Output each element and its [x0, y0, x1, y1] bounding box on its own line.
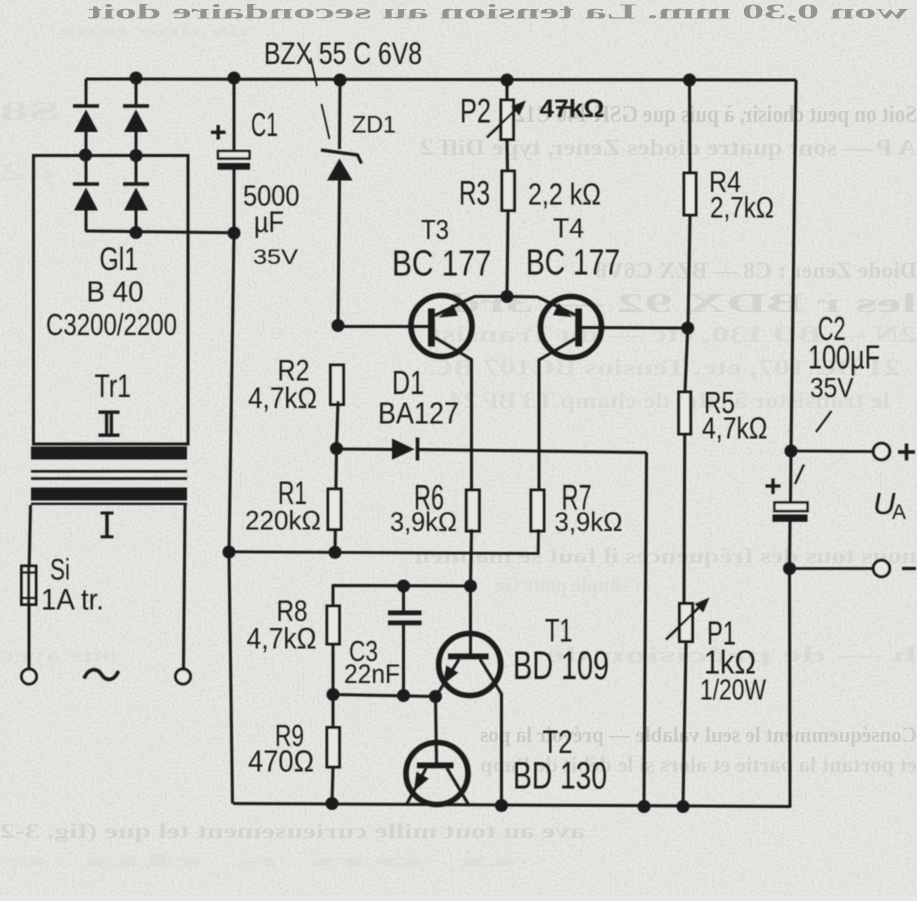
svg-text:1/20W: 1/20W	[700, 675, 766, 707]
svg-text:4,7kΩ: 4,7kΩ	[247, 623, 317, 656]
svg-text:3,9kΩ: 3,9kΩ	[555, 507, 623, 537]
svg-text:ZD1: ZD1	[352, 112, 396, 139]
svg-text:et simple pour Ge: et simple pour Ge	[495, 572, 650, 597]
svg-text:Tr1: Tr1	[95, 368, 132, 404]
svg-text:A: A	[892, 501, 906, 524]
svg-text:T3: T3	[421, 214, 449, 245]
svg-text:R3: R3	[459, 175, 490, 213]
svg-text:Diode Zener : C8 — BZX C6V8: Diode Zener : C8 — BZX C6V8	[595, 258, 917, 283]
svg-text:P2: P2	[460, 93, 491, 131]
svg-text:C1: C1	[251, 106, 278, 143]
svg-text:us une tens: us une tens	[60, 23, 250, 40]
svg-text:µF: µF	[254, 206, 284, 239]
svg-text:4,7kΩ: 4,7kΩ	[248, 382, 317, 415]
svg-text:BZX 55 C 6V8: BZX 55 C 6V8	[264, 35, 422, 71]
svg-text:C3200/2200: C3200/2200	[46, 307, 177, 342]
svg-text:A P — sont quatre diodes Zener: A P — sont quatre diodes Zener, type Dif…	[420, 135, 917, 160]
svg-text:2,2 kΩ: 2,2 kΩ	[528, 177, 601, 212]
svg-text:ave au tout mille curieusement: ave au tout mille curieusement tel que (…	[0, 819, 585, 843]
svg-text:47kΩ: 47kΩ	[540, 95, 605, 123]
svg-text:22nF: 22nF	[344, 659, 400, 689]
svg-text:les r BDX 92 — 3rd: les r BDX 92 — 3rd	[450, 288, 917, 318]
svg-text:B 40: B 40	[87, 277, 144, 309]
svg-text:100µF: 100µF	[808, 339, 880, 376]
svg-text:470Ω: 470Ω	[248, 744, 314, 779]
svg-text:35V: 35V	[253, 246, 298, 269]
svg-text:ous avec: ous avec	[0, 642, 118, 667]
svg-text:BD 130: BD 130	[513, 756, 607, 798]
svg-text:nous tous des fréquences il fa: nous tous des fréquences il faut se main…	[415, 543, 917, 568]
svg-text:S8: S8	[0, 97, 60, 126]
svg-text:220kΩ: 220kΩ	[245, 506, 321, 536]
svg-text:2,7kΩ: 2,7kΩ	[710, 191, 774, 224]
svg-text:BA127: BA127	[378, 396, 459, 431]
svg-text:ö2: ö2	[0, 157, 55, 186]
svg-text:Si: Si	[50, 554, 70, 587]
svg-text:u on s du e: u on s du e	[0, 850, 520, 870]
svg-text:T4: T4	[553, 212, 584, 243]
svg-text:BD 109: BD 109	[513, 644, 609, 688]
svg-text:won 0,30 mm. La tension au sec: won 0,30 mm. La tension au secondaire do…	[88, 0, 908, 24]
svg-text:Gl1: Gl1	[100, 241, 139, 277]
svg-text:BC 177: BC 177	[392, 243, 492, 284]
svg-text:1A tr.: 1A tr.	[41, 584, 104, 617]
svg-text:4,7kΩ: 4,7kΩ	[702, 411, 768, 446]
svg-text:3,9kΩ: 3,9kΩ	[390, 507, 457, 537]
svg-text:35V: 35V	[810, 372, 854, 403]
svg-text:BC 177: BC 177	[526, 242, 620, 283]
